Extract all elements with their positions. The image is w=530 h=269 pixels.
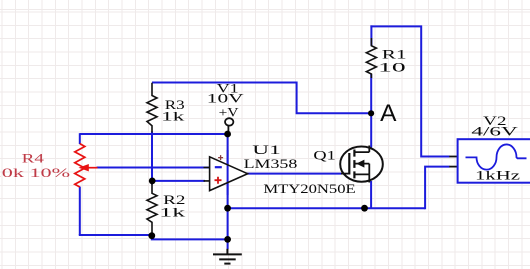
label R1 designator [382,48,407,62]
wire op-amp noninverting input from R2/R3 junction [152,180,205,185]
svg-text:R4: R4 [22,152,44,166]
power V1 +V terminal circle [225,118,233,131]
wire R4 bottom lead to bottom rail [79,187,81,235]
wire op-amp output to Q1 gate [247,173,342,175]
junction dot op-amp V- on source rail [224,205,231,212]
label R2 designator [163,193,185,207]
label Q1 part MTY20N50E [263,182,355,196]
source V2 box [458,139,530,183]
junction dot V1/+V rail [224,131,231,138]
wire V2 negative terminal link [425,167,458,210]
label R2 value 1k [159,205,187,219]
junction dot node A [368,110,374,116]
potentiometer R4 body [75,144,85,187]
op-amp U1 triangle [210,150,248,195]
label V2 designator [483,114,506,128]
svg-text:1kHz: 1kHz [475,169,521,183]
wire op-amp inverting input from R4 wiper [97,167,210,169]
ground symbol [213,249,242,264]
wire R3 bottom to R2 top junction [151,132,153,182]
label V1 designator [217,82,239,96]
label V2 value 4/6V [471,124,518,138]
wire Q1 source down to source rail [370,181,372,208]
op-amp positive supply marker [218,155,223,160]
svg-text:4/6V: 4/6V [471,124,518,138]
label R4 designator [22,152,44,166]
label R3 designator [165,98,185,112]
svg-text:Q1: Q1 [313,149,335,163]
label R4 value 1.0k 10% [0,166,70,180]
resistor R2 body [147,184,157,236]
wire bottom ground rail [79,235,228,239]
wire top rail to V2 positive terminal [370,26,458,156]
svg-text:10V: 10V [207,91,244,105]
svg-text:LM358: LM358 [244,157,298,171]
svg-text:+V: +V [219,106,239,120]
label R1 value 10 [378,61,406,75]
svg-text:10: 10 [378,61,406,75]
svg-text:A: A [380,100,397,127]
label +V supply [219,106,239,120]
junction dot source rail [361,205,368,212]
op-amp inverting input marker [215,166,222,168]
wire R1 bottom to Q1 drain through node A [370,74,372,148]
label U1 designator [252,143,280,157]
wire op-amp power column V+ to ground [227,134,229,249]
svg-text:1k: 1k [159,205,187,219]
junction dot ground column [224,236,231,243]
svg-text:1k: 1k [161,109,186,123]
op-amp input pin stubs [204,168,210,181]
wire +V rail from R4 top to V1 junction [80,133,228,135]
wire source rail from op-amp column to V2 corner [228,207,426,209]
potentiometer R4 wiper arrow [79,164,98,171]
svg-text:R1: R1 [382,48,407,62]
resistor R3 body [147,83,157,133]
wire R4 top lead [79,133,81,144]
resistor R1 body [366,38,376,78]
label V1 value 10V [207,91,244,105]
label node A [380,100,397,127]
junction dot R2 bottom on ground rail [148,232,155,239]
transistor Q1 MOSFET body [340,146,383,183]
svg-text:1.0k 10%: 1.0k 10% [0,166,70,180]
op-amp noninverting input marker [215,177,222,184]
wire R1 top stub [370,25,372,45]
label U1 part LM358 [244,157,298,171]
svg-text:U1: U1 [252,143,280,157]
label V2 frequency 1kHz [475,169,521,183]
wire node A net: R3 top to drain column [152,83,371,114]
junction dot R2/R3/noninverting input [149,178,156,185]
label Q1 designator [313,149,335,163]
svg-text:MTY20N50E: MTY20N50E [263,182,355,196]
label R3 value 1k [161,109,186,123]
